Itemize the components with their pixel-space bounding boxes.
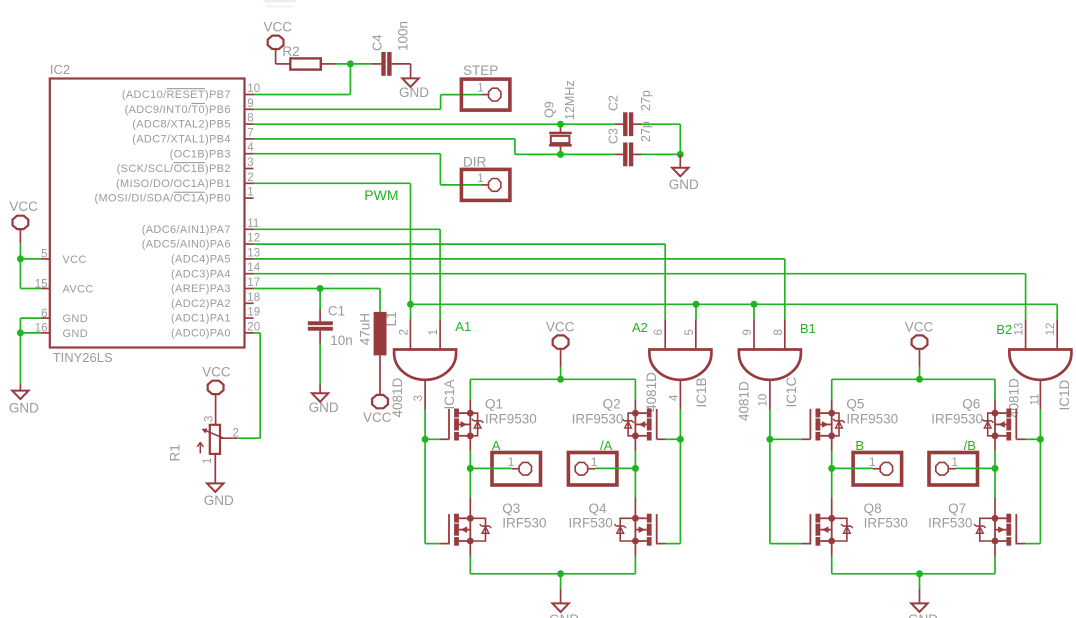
IC2 pin 15 AVCC bbox=[35, 278, 94, 295]
junction gate drive left bbox=[766, 436, 773, 443]
svg-text:(MISO/DO/OC1A)PB1: (MISO/DO/OC1A)PB1 bbox=[116, 178, 231, 190]
svg-text:13: 13 bbox=[1014, 323, 1026, 336]
connector pad STEP bbox=[461, 63, 510, 110]
op-amp style AND gate IC1A 4081D bbox=[390, 320, 457, 418]
svg-text:9: 9 bbox=[742, 329, 754, 335]
junction VCC pin5 bbox=[17, 255, 24, 262]
wire VCC rail bbox=[832, 379, 995, 399]
svg-text:19: 19 bbox=[247, 307, 260, 319]
wire bottom rail bbox=[470, 574, 635, 589]
svg-text:DIR: DIR bbox=[463, 154, 487, 169]
svg-text:Q2: Q2 bbox=[603, 396, 621, 411]
wire PA7 pin11 to IC1A bbox=[254, 229, 441, 319]
svg-text:VCC: VCC bbox=[546, 319, 575, 334]
svg-text:1: 1 bbox=[477, 81, 484, 95]
svg-text:IC1C: IC1C bbox=[784, 376, 799, 407]
svg-text:(ADC8/XTAL2)PB5: (ADC8/XTAL2)PB5 bbox=[132, 119, 231, 131]
svg-text:4081D: 4081D bbox=[390, 377, 405, 417]
svg-text:STEP: STEP bbox=[463, 63, 498, 78]
svg-text:IRF530: IRF530 bbox=[864, 515, 908, 530]
svg-text:Q9: Q9 bbox=[543, 101, 557, 118]
svg-text:10: 10 bbox=[247, 83, 260, 95]
svg-text:1: 1 bbox=[477, 171, 484, 185]
junction /A node bbox=[632, 465, 639, 472]
IC2 pin 10 (ADC10/RESET)PB7 bbox=[122, 83, 260, 101]
svg-text:3: 3 bbox=[247, 157, 253, 169]
wire pin9 PB6 to STEP bbox=[254, 95, 482, 110]
potentiometer R1 bbox=[168, 416, 239, 464]
svg-text:27p: 27p bbox=[639, 90, 653, 111]
wire B node bbox=[832, 467, 873, 469]
svg-text:4: 4 bbox=[247, 142, 254, 154]
junction GND pin16 bbox=[17, 329, 24, 336]
wire PA4 pin14 to IC1D bbox=[254, 274, 1026, 320]
svg-text:IRF9530: IRF9530 bbox=[846, 411, 898, 426]
svg-text:PWM: PWM bbox=[364, 187, 398, 203]
wire right column bbox=[634, 400, 636, 574]
svg-text:GND: GND bbox=[309, 400, 339, 415]
wire left column bbox=[469, 400, 471, 574]
svg-text:1: 1 bbox=[428, 329, 440, 335]
wire VCC to pin5/pin15 bbox=[20, 243, 40, 289]
svg-text:4081D: 4081D bbox=[644, 372, 659, 412]
svg-text:VCC: VCC bbox=[63, 254, 87, 266]
svg-text:1: 1 bbox=[951, 455, 958, 469]
junction /B node bbox=[992, 465, 999, 472]
wire PA5 pin13 to IC1C bbox=[254, 259, 785, 320]
ground symbol (crystal) bbox=[669, 154, 699, 192]
IC2 pin 18 (ADC2)PA2 bbox=[171, 292, 260, 310]
cropped symbol remnant at top edge bbox=[264, 1, 297, 6]
ground symbol (bridge) bbox=[908, 589, 938, 618]
wire bottom rail bbox=[832, 574, 995, 589]
svg-text:8: 8 bbox=[247, 113, 253, 125]
svg-text:A2: A2 bbox=[632, 320, 648, 335]
svg-text:Q4: Q4 bbox=[589, 501, 608, 516]
svg-text:8: 8 bbox=[773, 329, 785, 335]
svg-text:6: 6 bbox=[653, 329, 665, 335]
junction B node bbox=[828, 465, 835, 472]
transistor Q3 IRF530 bbox=[449, 501, 546, 545]
svg-text:20: 20 bbox=[247, 321, 260, 333]
IC2 pin 12 (ADC5/AIN0)PA6 bbox=[142, 233, 260, 251]
IC2 pin 16 GND bbox=[35, 323, 88, 340]
svg-text:1: 1 bbox=[869, 455, 876, 469]
svg-text:IC1A: IC1A bbox=[442, 379, 457, 409]
svg-text:GND: GND bbox=[9, 401, 39, 416]
junction PWM IC1B bbox=[693, 301, 700, 308]
svg-text:(ADC3)PA4: (ADC3)PA4 bbox=[171, 268, 231, 280]
svg-text:AVCC: AVCC bbox=[63, 284, 94, 296]
wire R2 to C4 bbox=[336, 63, 381, 65]
IC2 pin 9 (ADC9/INT0/T0)PB6 bbox=[125, 98, 254, 116]
svg-text:VCC: VCC bbox=[264, 19, 293, 34]
junction xtal gnd bbox=[677, 151, 684, 158]
svg-text:VCC: VCC bbox=[905, 319, 934, 334]
IC2 pin 5 VCC bbox=[41, 249, 87, 266]
svg-text:5: 5 bbox=[41, 249, 47, 261]
svg-text:B1: B1 bbox=[800, 321, 816, 336]
wire right column bbox=[994, 400, 996, 574]
svg-text:VCC: VCC bbox=[363, 410, 392, 425]
svg-text:4081D: 4081D bbox=[737, 381, 752, 421]
IC2 pin 8 (ADC8/XTAL2)PB5 bbox=[132, 113, 253, 131]
op-amp style AND gate IC1C 4081D bbox=[737, 320, 801, 422]
wire PWM net from pin2 PB1 bbox=[254, 183, 1058, 319]
VCC supply symbol (bridge) bbox=[905, 319, 934, 379]
IC2 pin 14 (ADC3)PA4 bbox=[171, 262, 261, 280]
IC2 pin 1 (MOSI/DI/SDA/OC1A)PB0 bbox=[94, 187, 253, 205]
wire gate drive left bbox=[770, 410, 811, 544]
VCC supply symbol (R1) bbox=[202, 364, 231, 424]
svg-text:10n: 10n bbox=[330, 333, 353, 348]
connector pad /A bbox=[568, 438, 617, 485]
svg-text:IC1D: IC1D bbox=[1057, 379, 1072, 410]
svg-text:4: 4 bbox=[669, 394, 681, 401]
wire R1 wiper to pin20 PA0 bbox=[237, 333, 260, 438]
junction PWM IC1A bbox=[407, 301, 414, 308]
transistor Q1 IRF9530 bbox=[449, 396, 537, 440]
svg-text:11: 11 bbox=[247, 218, 259, 230]
svg-text:6: 6 bbox=[41, 308, 47, 320]
svg-text:C4: C4 bbox=[370, 34, 385, 51]
svg-text:47uH: 47uH bbox=[358, 313, 373, 345]
wire junction down to pin10 PB7 bbox=[254, 64, 351, 95]
junction bottom rail bbox=[557, 570, 564, 577]
IC2 pin 19 (ADC1)PA1 bbox=[171, 307, 260, 325]
svg-text:10: 10 bbox=[757, 394, 769, 407]
svg-text:IC2: IC2 bbox=[50, 62, 70, 77]
svg-text:VCC: VCC bbox=[202, 364, 231, 379]
wire pin4 PB3 to DIR bbox=[254, 154, 482, 185]
svg-text:3: 3 bbox=[204, 416, 216, 422]
op-amp style AND gate IC1B 4081D bbox=[644, 320, 711, 412]
svg-text:(ADC4)PA5: (ADC4)PA5 bbox=[171, 254, 231, 266]
svg-text:IRF9530: IRF9530 bbox=[931, 411, 983, 426]
connector pad A bbox=[492, 438, 541, 485]
svg-text:VCC: VCC bbox=[9, 199, 38, 214]
junction A node bbox=[467, 465, 474, 472]
svg-text:GND: GND bbox=[63, 328, 89, 340]
svg-text:Q8: Q8 bbox=[864, 501, 882, 516]
svg-text:(AREF)PA3: (AREF)PA3 bbox=[171, 283, 231, 295]
svg-text:Q7: Q7 bbox=[948, 501, 966, 516]
svg-text:(ADC0)PA0: (ADC0)PA0 bbox=[171, 328, 231, 340]
svg-text:11: 11 bbox=[1030, 394, 1042, 406]
svg-text:12: 12 bbox=[247, 233, 260, 245]
svg-text:(ADC1)PA1: (ADC1)PA1 bbox=[171, 313, 231, 325]
svg-text:IRF530: IRF530 bbox=[502, 515, 546, 530]
IC2 pin 13 (ADC4)PA5 bbox=[171, 247, 260, 265]
svg-text:(ADC2)PA2: (ADC2)PA2 bbox=[171, 298, 231, 310]
transistor Q8 IRF530 bbox=[810, 501, 907, 545]
ground symbol (C1) bbox=[309, 385, 339, 416]
svg-text:IC1B: IC1B bbox=[694, 377, 709, 407]
IC2 pin 20 (ADC0)PA0 bbox=[171, 321, 260, 339]
svg-text:Q6: Q6 bbox=[962, 396, 980, 411]
IC2 pin 2 (MISO/DO/OC1A)PB1 bbox=[116, 172, 254, 190]
svg-text:Q3: Q3 bbox=[502, 501, 520, 516]
op-amp style AND gate IC1D 4081D bbox=[1007, 320, 1072, 419]
svg-text:12: 12 bbox=[1045, 323, 1057, 336]
junction R2/C4/PB7 bbox=[347, 60, 354, 67]
svg-text:B2: B2 bbox=[996, 322, 1012, 337]
svg-text:27p: 27p bbox=[639, 121, 653, 142]
VCC supply symbol (R2) bbox=[264, 19, 293, 64]
svg-text:14: 14 bbox=[247, 262, 260, 274]
svg-text:(ADC9/INT0/T0)PB6: (ADC9/INT0/T0)PB6 bbox=[125, 104, 231, 116]
svg-text:13: 13 bbox=[247, 247, 260, 259]
junction PWM IC1C bbox=[751, 301, 758, 308]
IC U IC2 TINY26LS body bbox=[50, 62, 245, 365]
capacitor C3 27p bbox=[607, 121, 654, 166]
junction VCC rail bbox=[557, 376, 564, 383]
ground symbol (R1) bbox=[204, 454, 234, 508]
svg-text:(OC1B)PB3: (OC1B)PB3 bbox=[170, 148, 231, 160]
svg-text:A1: A1 bbox=[455, 319, 471, 334]
wire gate drive left bbox=[425, 410, 449, 544]
svg-text:(ADC6/AIN1)PA7: (ADC6/AIN1)PA7 bbox=[142, 224, 231, 236]
wire PA6 pin12 to IC1B bbox=[254, 244, 666, 319]
wire gate drive right bbox=[657, 410, 681, 544]
junction gate drive left bbox=[422, 436, 429, 443]
IC2 pin 11 (ADC6/AIN1)PA7 bbox=[142, 218, 260, 236]
svg-text:1: 1 bbox=[247, 187, 253, 199]
svg-text:5: 5 bbox=[684, 329, 696, 335]
wire pin8 XTAL2 net bbox=[254, 123, 681, 125]
svg-text:Q1: Q1 bbox=[485, 396, 503, 411]
IC2 pin 17 (AREF)PA3 bbox=[171, 277, 260, 295]
svg-text:GND: GND bbox=[63, 313, 89, 325]
VCC supply symbol (L1) bbox=[372, 395, 388, 408]
svg-text:Q5: Q5 bbox=[846, 396, 864, 411]
connector pad B bbox=[853, 438, 902, 485]
wire /A node bbox=[595, 467, 636, 469]
transistor Q5 IRF9530 bbox=[810, 396, 898, 440]
svg-text:2: 2 bbox=[247, 172, 253, 184]
capacitor C1 10n bbox=[308, 289, 353, 385]
svg-text:GND: GND bbox=[549, 612, 579, 618]
svg-text:(ADC7/XTAL1)PB4: (ADC7/XTAL1)PB4 bbox=[132, 134, 231, 146]
ground symbol (left) bbox=[9, 384, 39, 416]
IC2 pin 6 GND bbox=[41, 308, 88, 325]
IC2 pin 4 (OC1B)PB3 bbox=[170, 142, 255, 160]
svg-text:GND: GND bbox=[669, 177, 699, 192]
transistor Q7 IRF530 bbox=[928, 501, 1016, 545]
wire GND pins 6,16 bbox=[20, 318, 40, 384]
transistor Q4 IRF530 bbox=[569, 501, 657, 545]
wire /B node bbox=[956, 467, 996, 469]
resistor R2 bbox=[276, 44, 336, 69]
capacitor C4 100n bbox=[370, 21, 411, 78]
svg-text:100n: 100n bbox=[396, 21, 411, 51]
wire VCC rail bbox=[470, 379, 635, 399]
svg-text:IRF530: IRF530 bbox=[569, 515, 613, 530]
svg-text:GND: GND bbox=[204, 493, 234, 508]
IC2 pin 3 (SCK/SCL/OC1B)PB2 bbox=[117, 157, 254, 175]
svg-text:9: 9 bbox=[247, 98, 253, 110]
svg-text:IRF9530: IRF9530 bbox=[572, 411, 624, 426]
junction crystal top bbox=[557, 121, 564, 128]
junction crystal bottom bbox=[557, 151, 564, 158]
transistor Q6 IRF9530 bbox=[931, 396, 1016, 440]
svg-text:2: 2 bbox=[398, 329, 410, 335]
wire AREF pin17 net bbox=[254, 289, 381, 312]
svg-text:(ADC10/RESET)PB7: (ADC10/RESET)PB7 bbox=[122, 89, 231, 101]
svg-text:L1: L1 bbox=[384, 311, 399, 326]
svg-text:1: 1 bbox=[202, 458, 214, 464]
svg-text:(ADC5/AIN0)PA6: (ADC5/AIN0)PA6 bbox=[142, 239, 231, 251]
svg-text:(MOSI/DI/SDA/OC1A)PB0: (MOSI/DI/SDA/OC1A)PB0 bbox=[94, 193, 230, 205]
svg-text:(SCK/SCL/OC1B)PB2: (SCK/SCL/OC1B)PB2 bbox=[117, 163, 231, 175]
svg-text:GND: GND bbox=[908, 612, 938, 618]
wire gate drive right bbox=[1016, 410, 1040, 544]
wire C2 to C3 right side bbox=[679, 124, 681, 154]
junction VCC rail bbox=[916, 376, 923, 383]
capacitor C2 27p bbox=[607, 90, 654, 136]
wire pin7 XTAL1 net bbox=[254, 139, 681, 155]
ground symbol (C4) bbox=[402, 78, 418, 87]
connector pad DIR bbox=[461, 154, 510, 200]
VCC supply symbol (bridge) bbox=[546, 319, 575, 379]
ground symbol (bridge) bbox=[549, 589, 579, 618]
svg-text:18: 18 bbox=[247, 292, 260, 304]
svg-text:IRF9530: IRF9530 bbox=[485, 411, 537, 426]
junction bottom rail bbox=[916, 570, 923, 577]
svg-text:TINY26LS: TINY26LS bbox=[53, 350, 113, 365]
junction AREF/C1 bbox=[317, 285, 324, 292]
inductor L1 47uH bbox=[358, 311, 399, 394]
svg-text:7: 7 bbox=[247, 127, 253, 139]
crystal Q9 12MHz bbox=[543, 80, 578, 154]
svg-text:C2: C2 bbox=[607, 95, 621, 111]
svg-text:R2: R2 bbox=[282, 44, 299, 59]
junction gate drive right bbox=[677, 436, 684, 443]
svg-text:1: 1 bbox=[591, 455, 598, 469]
svg-text:12MHz: 12MHz bbox=[563, 80, 577, 120]
connector pad /B bbox=[929, 438, 978, 485]
svg-text:C3: C3 bbox=[607, 128, 621, 144]
svg-text:1: 1 bbox=[508, 455, 515, 469]
transistor Q2 IRF9530 bbox=[572, 396, 657, 440]
svg-text:GND: GND bbox=[399, 85, 429, 100]
VCC supply symbol (left) bbox=[9, 199, 38, 243]
IC2 pin 7 (ADC7/XTAL1)PB4 bbox=[132, 127, 253, 145]
junction gate drive right bbox=[1037, 436, 1044, 443]
svg-text:3: 3 bbox=[413, 395, 425, 401]
wire left column bbox=[831, 400, 833, 574]
svg-text:R1: R1 bbox=[168, 444, 183, 461]
svg-text:C1: C1 bbox=[328, 304, 345, 319]
svg-text:IRF530: IRF530 bbox=[928, 515, 972, 530]
svg-text:17: 17 bbox=[247, 277, 260, 289]
wire A node bbox=[470, 467, 512, 469]
